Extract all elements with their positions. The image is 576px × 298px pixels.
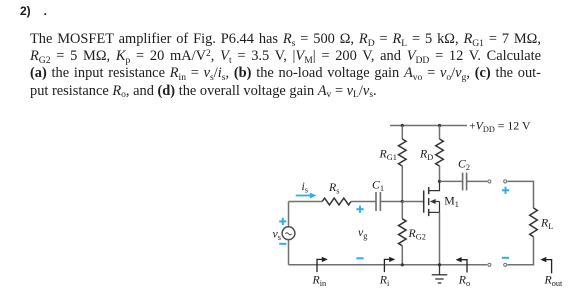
wire C2 to output terminal [467, 180, 487, 182]
svg-text:is: is [302, 179, 309, 195]
svg-text:RG2: RG2 [408, 226, 426, 242]
wire top rail VDD [390, 125, 467, 127]
minus vs [279, 243, 286, 245]
wire load top [507, 181, 533, 208]
arrow Ro [462, 260, 468, 273]
svg-text:Rin: Rin [312, 272, 328, 288]
wire load bottom [507, 237, 533, 265]
node VDD junction RD [438, 124, 441, 127]
resistor RG2 [398, 219, 406, 246]
wire drain to C2 [440, 180, 463, 182]
plus output [502, 187, 509, 194]
capacitor C1 [376, 192, 380, 211]
resistor Rs [322, 198, 351, 205]
svg-text:M1: M1 [444, 193, 459, 209]
arrow Rin [317, 259, 323, 272]
node drain junction [438, 180, 441, 183]
svg-text:Ri: Ri [379, 272, 390, 288]
node load terminal bottom right [504, 263, 507, 266]
svg-text:Ro: Ro [458, 272, 470, 288]
node output terminal bottom left [488, 263, 491, 266]
node load terminal top right [504, 180, 507, 183]
svg-text:Rout: Rout [544, 272, 564, 288]
wire RG2 bottom lead [401, 246, 403, 265]
wire C1 to gate node [381, 201, 403, 203]
svg-text:RG1: RG1 [379, 147, 397, 163]
wire RD bottom lead to drain node [439, 166, 441, 181]
resistor RD [436, 139, 444, 166]
minus output [502, 257, 509, 259]
current arrow is [296, 195, 311, 197]
svg-text:Rs: Rs [328, 180, 339, 196]
node gate junction [401, 200, 404, 203]
node VDD junction RG1 [401, 124, 404, 127]
wire gate node to gate [402, 201, 423, 203]
resistor RG1 [398, 139, 406, 166]
wire RD top lead [439, 126, 441, 140]
svg-text:RD: RD [419, 147, 433, 163]
wire Rs to C1 [351, 201, 376, 203]
arrow Rout [546, 260, 552, 274]
wire input top to Rs [289, 201, 323, 203]
source vs [282, 227, 295, 240]
svg-text:C2: C2 [458, 157, 470, 173]
ground [432, 265, 448, 283]
wire source bottom lead [288, 240, 290, 265]
node RG2 rail junction [401, 263, 404, 266]
plus vg [356, 206, 363, 213]
wire M1 source to rail [439, 212, 441, 264]
wire RG2 top lead [401, 202, 403, 219]
arrow Ri [384, 259, 390, 272]
svg-text:vs: vs [273, 226, 281, 242]
resistor RL [530, 208, 538, 237]
svg-text:+VDD = 12 V: +VDD = 12 V [469, 119, 531, 135]
minus vg [356, 257, 363, 259]
wire RG1 top lead [401, 126, 403, 140]
node source rail junction [438, 263, 441, 266]
wire bottom rail [289, 264, 488, 266]
wire source top lead [288, 202, 290, 227]
plus vs [279, 218, 286, 225]
svg-text:vg: vg [358, 225, 367, 241]
capacitor C2 [463, 173, 467, 191]
wire RG1 bottom lead to gate node [401, 166, 403, 202]
transistor M1 [424, 181, 440, 216]
svg-text:RL: RL [540, 216, 553, 232]
svg-text:C1: C1 [372, 178, 384, 194]
node output terminal top left [488, 180, 491, 183]
